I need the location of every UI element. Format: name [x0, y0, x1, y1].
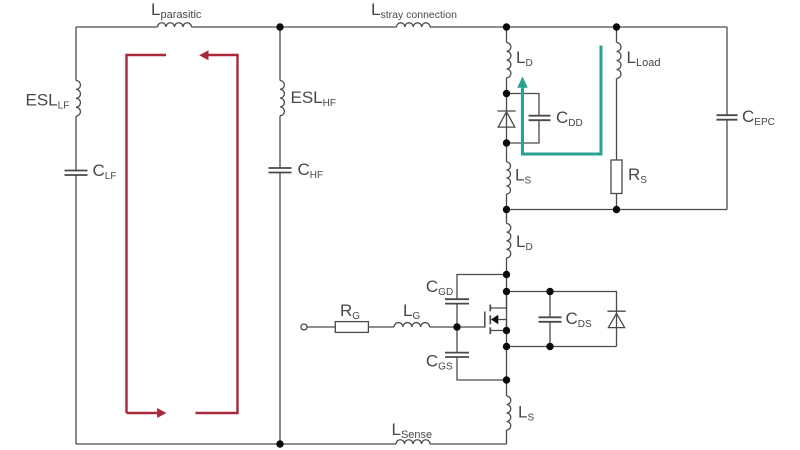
red arrowhead top (points left) — [199, 50, 208, 60]
svg-text:LG: LG — [403, 301, 420, 322]
wire C_DD top link — [507, 94, 540, 116]
wire switch rail through fet — [506, 258, 508, 396]
wire C_EPC branch lower — [726, 120, 728, 210]
wire C_DS top link — [507, 292, 617, 347]
wire gate lead — [430, 326, 485, 328]
svg-text:ESLLF: ESLLF — [26, 91, 70, 112]
wire gate branch mid — [456, 304, 458, 353]
inductor Lstray — [397, 23, 431, 27]
capacitor C_GS — [445, 353, 469, 357]
resistor R_G — [335, 322, 368, 333]
wire red top-right segment with arrow — [208, 54, 238, 56]
svg-text:CDS: CDS — [566, 309, 593, 330]
transistor Q1 channel segments — [489, 305, 491, 335]
transistor Q1 body arrow — [490, 320, 506, 331]
wire L_S bottom to bus — [506, 430, 508, 444]
svg-text:Lstray connection: Lstray connection — [371, 0, 457, 21]
svg-text:LS: LS — [515, 166, 531, 187]
wire red bottom-left segment — [127, 412, 158, 414]
wire bottom bus left segment — [76, 443, 396, 445]
inductor L_G — [394, 323, 430, 327]
svg-text:LD: LD — [516, 232, 533, 253]
wire gate input — [307, 326, 335, 328]
node drain — [503, 288, 510, 295]
inductor ESL_LF — [76, 81, 80, 117]
inductor L_D top — [507, 43, 511, 78]
node top HF junction — [276, 23, 283, 30]
wire C_DD bottom link — [507, 120, 540, 143]
svg-text:Lparasitic: Lparasitic — [151, 0, 202, 21]
inductor L_S top — [507, 162, 511, 194]
svg-text:CGS: CGS — [426, 351, 453, 372]
wire top bus left segment — [76, 26, 158, 28]
node diode bottom — [503, 139, 510, 146]
svg-text:LS: LS — [518, 402, 534, 423]
diode D1 — [498, 111, 516, 127]
wire C_DS bottom link — [507, 346, 617, 348]
node C_GS bottom — [503, 376, 510, 383]
wire red right vertical — [236, 54, 238, 414]
wire load branch mid — [616, 79, 618, 161]
capacitor C_GD — [445, 299, 469, 303]
diode D2 — [607, 311, 625, 327]
capacitor C_HF — [269, 168, 292, 173]
node top load junction — [613, 23, 620, 30]
wire C_GS bottom link — [457, 357, 507, 380]
svg-text:LSense: LSense — [392, 420, 433, 441]
node diode top — [503, 90, 510, 97]
wire HF rail upper — [279, 27, 281, 81]
wire red top-left segment — [127, 54, 167, 56]
node source — [503, 327, 510, 334]
wire R_G to L_G — [368, 326, 394, 328]
wire HF rail lower — [279, 173, 281, 445]
wire left rail upper — [75, 27, 77, 81]
wire switch rail top — [506, 27, 508, 43]
transistor Q1 gate bar — [484, 312, 486, 328]
node bottom HF junction — [276, 440, 283, 447]
capacitor C_DS — [539, 317, 562, 322]
capacitor C_DD — [529, 116, 551, 121]
wire L_S to mid bus — [506, 194, 508, 224]
red loop commutation path — [127, 54, 238, 414]
inductor Lparasitic — [158, 23, 192, 27]
wire red left vertical — [125, 54, 127, 413]
inductor L_D bottom — [507, 224, 511, 258]
wire green left vertical — [521, 86, 524, 153]
wire bottom bus right segment — [430, 443, 507, 445]
node C_GD top — [503, 271, 510, 278]
resistor R_S — [611, 160, 622, 194]
wire C_GD top link — [457, 275, 507, 300]
node mid bus load — [613, 206, 620, 213]
capacitor C_LF — [65, 171, 88, 176]
wire top bus middle segment — [192, 26, 397, 28]
transistor Q1 drain lead — [491, 292, 507, 309]
wire green bottom horizontal — [521, 153, 603, 156]
wire mid bus — [507, 209, 728, 211]
red arrowhead bottom (points right) — [157, 408, 166, 418]
svg-text:LD: LD — [516, 48, 533, 69]
node mid bus left — [503, 206, 510, 213]
inductor L_S bottom — [507, 396, 511, 430]
node top switch junction — [503, 23, 510, 30]
wire C_DS vertical — [549, 292, 551, 347]
node C_DS bottom — [546, 343, 553, 350]
svg-text:LLoad: LLoad — [627, 48, 661, 69]
svg-text:ESLHF: ESLHF — [291, 88, 336, 109]
node gate — [453, 323, 460, 330]
wire red bottom-right segment — [196, 412, 238, 414]
svg-text:CEPC: CEPC — [742, 107, 775, 128]
terminal gate input — [301, 324, 307, 330]
wire top bus right segment — [430, 26, 727, 28]
wire left rail mid — [75, 116, 77, 170]
capacitor C_EPC — [717, 115, 738, 120]
wire load branch top — [616, 27, 618, 43]
svg-text:CLF: CLF — [93, 161, 117, 182]
wire L_D to diode — [506, 78, 508, 162]
wire HF rail mid — [279, 116, 281, 168]
wire left rail lower — [75, 175, 77, 444]
svg-text:RS: RS — [628, 165, 647, 186]
green loop measurement path — [521, 46, 603, 156]
node C_DS bottom left — [503, 343, 510, 350]
svg-text:RG: RG — [340, 301, 360, 322]
wire load branch bottom — [616, 194, 618, 210]
green arrowhead (points up) — [517, 77, 528, 88]
svg-text:CGD: CGD — [426, 277, 453, 298]
svg-text:CDD: CDD — [556, 108, 583, 129]
inductor Lsense — [396, 440, 430, 444]
inductor L_Load — [617, 43, 622, 79]
inductor ESL_HF — [280, 81, 284, 116]
wire C_EPC branch upper — [726, 27, 728, 115]
node C_DS top — [546, 288, 553, 295]
svg-text:CHF: CHF — [298, 160, 324, 181]
wire green right vertical — [600, 46, 603, 156]
